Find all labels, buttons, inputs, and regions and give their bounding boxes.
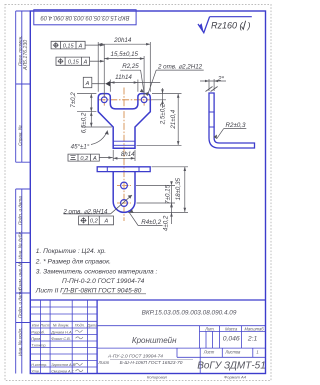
svg-text:0,2: 0,2 [90,219,99,225]
massa / masshtab columns [219,326,241,348]
svg-text:Смирнов А.Г.: Смирнов А.Г. [51,369,74,373]
svg-text:15,5±0,15: 15,5±0,15 [111,51,139,58]
svg-text:Масса: Масса [225,327,238,332]
dimension texts [62,37,246,231]
svg-text:Дата: Дата [86,324,97,328]
svg-text:1. Покрытие : Ц24. хр.: 1. Покрытие : Ц24. хр. [36,248,106,255]
svg-text:Лист: Лист [39,324,50,328]
name bottom [97,347,265,349]
svg-text:): ) [247,20,251,30]
svg-text:П-ПН-0-2.0 ГОСТ 19904-74: П-ПН-0-2.0 ГОСТ 19904-74 [62,278,145,285]
dim line 15,5 [104,58,144,60]
centerline vertical through views [123,88,125,222]
svg-text:Подп.: Подп. [75,324,85,328]
dim 7±0,2 / 6,5±0,2 [90,94,92,127]
left section columns [40,300,87,374]
svg-text:ВКР.15.03.05.09.003.08.090.4.0: ВКР.15.03.05.09.003.08.090.4.09 [40,14,130,20]
svg-text:Лит.: Лит. [204,327,215,332]
name / lit boundary [199,326,201,348]
svg-text:2:1: 2:1 [247,336,258,343]
svg-text:Фокин С.В.: Фокин С.В. [51,337,71,341]
ext lines right side [137,94,182,146]
centerline front-view hole2 horizontal [117,202,132,204]
notes text [35,248,158,294]
lit subcolumns [206,331,213,348]
front hole upper [121,182,128,189]
svg-text:Лист: Лист [98,360,110,365]
svg-text:0,2: 0,2 [80,156,89,162]
position symbol front frame [81,217,87,223]
datum A frame [83,77,105,87]
leader 2 отв 2,9H14 front [111,195,132,214]
svg-text:№ докум.: № докум. [53,324,70,328]
svg-text:Инв. № дубл.: Инв. № дубл. [18,231,23,259]
svg-text:Утв.: Утв. [31,369,40,373]
svg-text:Пров.: Пров. [31,337,41,341]
svg-text:2 отв. ⌀2,2H12: 2 отв. ⌀2,2H12 [157,64,203,71]
svg-text:Подп. и дата: Подп. и дата [18,289,23,318]
leader R4±0,2 front [129,213,162,226]
top view outline (development) [98,94,150,149]
hole left 2,2H12 [101,97,107,103]
tolerance frame position 2 [56,57,104,65]
side view tick lines [209,112,215,127]
centerline right hole vertical [143,94,145,106]
svg-text:Копировал: Копировал [147,374,168,379]
svg-text:АЛ5.176.230: АЛ5.176.230 [23,40,29,71]
svg-text:Разраб.: Разраб. [31,330,45,334]
dim 21±0,4 [177,94,179,146]
ext+dim 8h14 [113,150,135,161]
tolerance frame 2,9 holes front view [64,214,114,225]
dim 4±0,2 [171,203,173,224]
svg-text:2. * Размер для справок.: 2. * Размер для справок. [35,257,111,265]
svg-text:7±0,15: 7±0,15 [164,184,171,203]
svg-text:A: A [78,43,83,49]
ext lines top view top [98,42,150,92]
svg-text:6,5±0,2: 6,5±0,2 [81,112,88,133]
svg-text:Справ. №: Справ. № [18,125,23,146]
list row and org [177,348,266,373]
svg-text:Листов: Листов [224,350,241,355]
arrowheads [90,43,218,217]
svg-text:R4±0,2: R4±0,2 [141,219,161,226]
svg-text:0,15: 0,15 [68,60,80,66]
svg-text:Дунаев Н.А.: Дунаев Н.А. [50,330,72,334]
svg-text:0,15: 0,15 [63,43,75,49]
tolerance frame position 1 [51,41,104,49]
svg-text:11h14: 11h14 [115,74,132,81]
svg-text:Лист II ГЛ-ВГ-08КП ГОСТ 9045-8: Лист II ГЛ-ВГ-08КП ГОСТ 9045-80 [35,287,142,294]
position symbol box1 [53,42,59,48]
svg-text:Масштаб: Масштаб [244,327,264,332]
svg-text:4±0,2: 4±0,2 [162,215,169,231]
svg-text:Изм: Изм [32,324,39,328]
symmetry symbol [70,156,75,160]
svg-text:0,046: 0,046 [223,336,240,343]
svg-text:ВКР.15.03.05.09.003.08.090.4.0: ВКР.15.03.05.09.003.08.090.4.09 [142,310,237,317]
svg-text:A: A [104,219,109,225]
dim 2,5±0,2 [162,88,164,108]
centerline left hole vertical [103,94,105,106]
svg-text:Н.контр.: Н.контр. [31,363,47,367]
svg-text:3. Заменитель основного матери: 3. Заменитель основного материала : [36,269,158,276]
top view bend lines [113,141,135,145]
leader 2 отв 2,2H12 [147,70,203,96]
svg-text:20h14: 20h14 [113,37,132,44]
roughness mark Rz160 [198,17,252,33]
dim line 20h14 [98,43,150,45]
dim line 11h14 [110,82,160,84]
svg-text:Лист: Лист [203,350,215,355]
svg-text:18±0,35: 18±0,35 [175,177,182,200]
svg-text:Перв. примен.: Перв. примен. [18,35,23,66]
svg-text:Подп. и дата: Подп. и дата [18,196,23,225]
designation bottom [97,325,265,327]
lit header bottom [200,330,266,332]
svg-text:A: A [85,81,90,87]
svg-text:Кронштейн: Кронштейн [132,336,177,345]
svg-text:R2±0,3: R2±0,3 [226,122,246,129]
ext lines left side [77,94,112,127]
tolerance frame texts [63,43,97,162]
leader 45 deg [91,131,108,145]
svg-text:Взам. инв. №: Взам. инв. № [18,262,23,290]
svg-text:1: 1 [256,350,258,355]
left section rows [30,307,97,367]
svg-text:7±0,2: 7±0,2 [70,92,77,108]
svg-text:2*: 2* [217,76,224,83]
svg-text:А-ПУ-2.0 ГОСТ 19904-74: А-ПУ-2.0 ГОСТ 19904-74 [107,354,163,360]
title block texts [31,310,266,380]
svg-text:R2,25: R2,25 [122,63,139,70]
front hole lower 2,9H14 [121,200,128,207]
title block grid [30,300,265,374]
ext lines front view right [128,167,188,213]
front view body [113,172,135,213]
svg-text:21±0,4: 21±0,4 [170,109,177,129]
svg-text:A: A [83,60,88,66]
leader R2,25 [120,70,144,92]
top-left flipped designation box [34,10,136,25]
leader R2±0,3 side [217,129,247,139]
svg-text:2 отв. ⌀2,9H14: 2 отв. ⌀2,9H14 [62,209,108,216]
svg-text:ВоГУ ЗДМТ-51: ВоГУ ЗДМТ-51 [197,360,266,371]
svg-text:Т.контр.: Т.контр. [31,343,46,347]
left margin column lines [16,11,31,374]
hole right 2,2H12 [141,97,147,103]
svg-text:Формат А4: Формат А4 [224,374,247,379]
signatures [75,330,83,332]
dim 7±0,15 [171,186,173,204]
dim 18±0,35 [184,167,186,212]
svg-text:Б-Ш-Н-10КП ГОСТ 16523-70: Б-Ш-Н-10КП ГОСТ 16523-70 [120,360,183,366]
svg-text:A: A [92,156,97,162]
side view slash marks [206,87,218,92]
svg-text:45°±1°: 45°±1° [71,144,90,151]
left strip rotated labels [18,35,30,356]
centerline horizontal through top-view holes [99,99,153,101]
centerline front-view hole1 horizontal [117,185,132,187]
svg-text:Rz160 (: Rz160 ( [211,20,244,30]
side view L-profile [209,93,255,148]
svg-text:2,5±0,2: 2,5±0,2 [160,103,167,125]
svg-text:Инв. № подл.: Инв. № подл. [18,327,23,356]
side view 2* ext and dim [200,79,226,91]
position symbol box2 [58,58,64,64]
material fraction line [110,358,193,360]
title block outer [30,300,265,374]
front view flange [97,167,150,172]
svg-text:8h14: 8h14 [121,151,135,158]
svg-text:Зарослов А.В.: Зарослов А.В. [51,363,76,367]
drawing frame [30,11,265,374]
symmetry tolerance frame [68,154,113,161]
